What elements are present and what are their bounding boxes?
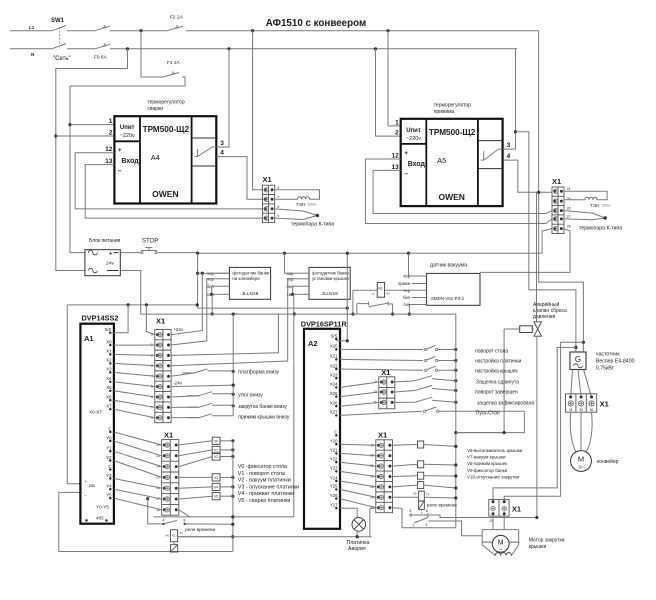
svg-text:V4: V4 xyxy=(214,485,218,489)
svg-text:A1: A1 xyxy=(84,334,94,343)
junction F1 to A4 pin1 xyxy=(68,123,71,126)
svg-text:3: 3 xyxy=(220,140,224,147)
wire N to PSU xyxy=(56,49,128,271)
svg-text:на конвейере: на конвейере xyxy=(232,276,260,281)
wires A1 Y pins to strip xyxy=(114,432,162,510)
relay coil реле времени K1 xyxy=(165,527,233,552)
svg-text:терморегулятор: терморегулятор xyxy=(434,102,471,108)
wire B2 sin down long to bus517 xyxy=(294,294,295,517)
valve V0 xyxy=(179,437,235,445)
svg-text:C: C xyxy=(334,430,337,435)
svg-text:X1: X1 xyxy=(381,368,390,377)
junction N to A4 pin2 xyxy=(54,134,57,137)
svg-text:+: + xyxy=(404,150,408,157)
junction rail1 xyxy=(232,370,235,373)
svg-text:4: 4 xyxy=(507,153,511,160)
heater ТЭН loop (A4) xyxy=(275,190,320,207)
valve V2 xyxy=(179,453,235,467)
svg-text:X1: X1 xyxy=(552,177,561,186)
wire bus517 left segment xyxy=(154,516,294,518)
svg-text:13: 13 xyxy=(105,158,113,165)
wire B2 kor up to +24v xyxy=(285,253,296,273)
wire bus536 horizontal xyxy=(178,536,372,538)
svg-text:X21: X21 xyxy=(330,354,338,359)
svg-text:+: + xyxy=(109,252,113,258)
svg-text:конвейер: конвейер xyxy=(597,458,619,465)
wire -24v bus horizontal xyxy=(141,313,456,315)
limit switch Защелка сдвинута xyxy=(395,376,519,386)
svg-text:ТРМ500-Щ2: ТРМ500-Щ2 xyxy=(429,128,476,137)
svg-text:X1: X1 xyxy=(378,431,387,440)
svg-text:~1: ~1 xyxy=(371,292,375,296)
junction G input A xyxy=(582,341,585,344)
valve V3 xyxy=(179,474,235,481)
valve V8 xyxy=(393,472,458,479)
limit switch прижим крышки внизу xyxy=(171,414,290,421)
svg-text:"Сеть": "Сеть" xyxy=(53,56,71,62)
svg-text:−: − xyxy=(118,168,122,175)
svg-text:35: 35 xyxy=(579,408,583,412)
svg-text:ТЭН: ТЭН xyxy=(590,203,599,208)
wires A2 Y pins to strip xyxy=(340,444,376,508)
svg-text:-24v: -24v xyxy=(173,381,183,386)
svg-text:-: - xyxy=(109,522,110,526)
svg-text:Y4: Y4 xyxy=(106,484,112,489)
svg-text:X25: X25 xyxy=(330,391,338,396)
valve V5 xyxy=(179,493,235,500)
wire A4 pin1 feed xyxy=(70,124,114,126)
wires X1 to conveyor motor xyxy=(570,412,592,452)
labels V0-V5 xyxy=(238,464,299,504)
junction B1 kor strip tap xyxy=(201,272,204,275)
wire A1 S/S to +24v bus xyxy=(110,305,128,333)
junction L1 drop x388 xyxy=(386,29,389,32)
sensor B2 фотодатчик банки установки крышки xyxy=(287,267,351,299)
wire A5 pin4 to X1 row1 xyxy=(503,160,552,192)
svg-text:Y22: Y22 xyxy=(330,457,338,462)
svg-text:защелка зафиксирована: защелка зафиксирована xyxy=(477,401,534,407)
breaker F0 6A xyxy=(94,25,110,60)
wire contact lower out to motor frame xyxy=(428,521,482,536)
svg-text:V2 - вакуум платинки: V2 - вакуум платинки xyxy=(238,478,291,484)
junction L1-F1 branch xyxy=(139,29,142,32)
junction N drop x375.5 xyxy=(374,47,377,50)
terminal block X1 (welding heater) xyxy=(263,175,280,223)
wire N to freq converter input B xyxy=(529,290,576,352)
terminal block X1 (cap motor) xyxy=(489,499,521,522)
svg-text:Блок питания: Блок питания xyxy=(89,238,121,244)
svg-text:терморегулятор: терморегулятор xyxy=(147,100,184,106)
svg-text:F1 2A: F1 2A xyxy=(167,60,181,66)
svg-text:Y26: Y26 xyxy=(330,493,338,498)
svg-text:настройка крышек: настройка крышек xyxy=(475,368,519,375)
junction stop out xyxy=(196,252,199,255)
wire L1 right drop to freq converter xyxy=(539,31,584,352)
svg-text:4: 4 xyxy=(220,150,224,157)
svg-text:термопара К-типа: термопара К-типа xyxy=(579,226,622,232)
contact реле времени (timer1 contact) xyxy=(146,497,233,525)
svg-text:0,75кВт: 0,75кВт xyxy=(596,366,615,372)
svg-text:485: 485 xyxy=(96,516,104,521)
wire Пуск-Стоп loop xyxy=(456,411,525,432)
svg-text:V8-прижим крышек: V8-прижим крышек xyxy=(467,461,507,466)
wire strip row7 to bus517 xyxy=(179,510,190,517)
wire L1 to X1 row1 (heater) xyxy=(253,31,263,190)
junction N drop left xyxy=(126,47,129,50)
svg-text:крышки: крышки xyxy=(529,544,547,550)
svg-text:X7: X7 xyxy=(106,404,112,409)
limit switch закрутка банки внизу xyxy=(171,403,287,410)
svg-text:34: 34 xyxy=(569,408,573,412)
wire A4 pin13 route under block xyxy=(85,165,262,219)
junction B1 sin xyxy=(211,312,214,315)
pushbutton STOP xyxy=(120,239,197,254)
wire cap-motor feed 2 xyxy=(504,342,583,501)
wires A1 X pins to strip xyxy=(114,345,155,418)
svg-text:Y1: Y1 xyxy=(106,446,112,451)
svg-text:X1: X1 xyxy=(512,505,521,514)
svg-text:X1: X1 xyxy=(156,317,165,326)
terminal block X1 (A1 inputs) xyxy=(151,317,171,423)
wire B1 bel tie to sin xyxy=(212,286,216,294)
valve V4 xyxy=(179,483,235,490)
svg-text:+24v: +24v xyxy=(173,327,184,332)
svg-text:Вход: Вход xyxy=(408,161,426,168)
valve V6 xyxy=(393,441,458,448)
limit switch поворот завершен xyxy=(395,386,518,396)
svg-text:S/S: S/S xyxy=(105,327,112,332)
junction B1 bel-sin xyxy=(210,293,213,296)
wire A4 pin12 route under block xyxy=(75,153,262,209)
wire valve return down xyxy=(456,329,504,433)
svg-text:27: 27 xyxy=(567,215,571,219)
wire switch common rail xyxy=(232,314,234,416)
thermocouple K-type (A4) xyxy=(275,209,335,228)
svg-text:X4: X4 xyxy=(106,376,112,381)
svg-text:V5 - сварка платинки: V5 - сварка платинки xyxy=(238,498,291,504)
svg-text:13: 13 xyxy=(391,164,399,171)
svg-text:V6-выталкиватель крышки: V6-выталкиватель крышки xyxy=(467,448,523,453)
svg-text:Т=: Т= xyxy=(426,493,430,497)
svg-text:26: 26 xyxy=(567,207,571,211)
converter G частотник Веспер Е4-8400 xyxy=(570,352,635,372)
svg-text:X0-X7: X0-X7 xyxy=(89,410,102,415)
svg-text:S/S: S/S xyxy=(331,333,338,338)
wire valve common rail xyxy=(232,441,234,552)
junction bus305 end xyxy=(196,303,199,306)
svg-text:24v: 24v xyxy=(106,261,114,267)
svg-text:Y0-Y5: Y0-Y5 xyxy=(96,505,109,510)
svg-text:датчик вакуума: датчик вакуума xyxy=(430,263,467,269)
svg-text:~220v: ~220v xyxy=(406,136,421,142)
wire +24v down to bus xyxy=(197,253,199,308)
svg-text:частотник: частотник xyxy=(596,352,620,358)
svg-text:Пуск-Стоп: Пуск-Стоп xyxy=(476,411,500,417)
svg-text:~: ~ xyxy=(499,547,502,553)
contact K3 xyxy=(357,302,393,315)
wire K3 coil return to -24v bus xyxy=(352,290,354,314)
svg-text:0: 0 xyxy=(151,333,153,337)
limit switch защелка зафиксирована xyxy=(395,397,535,406)
valve V9 xyxy=(393,482,458,490)
junction G input B xyxy=(574,346,577,349)
svg-text:установки крышки: установки крышки xyxy=(312,276,349,281)
svg-text:поворот завершен: поворот завершен xyxy=(475,390,518,396)
svg-text:3~: 3~ xyxy=(578,464,584,469)
wire +24v up to X1 row5 xyxy=(542,229,552,254)
wire A2 S/S to +24v line xyxy=(336,253,347,341)
svg-text:реле времени: реле времени xyxy=(185,527,215,532)
svg-text:JLLN18: JLLN18 xyxy=(242,291,259,297)
junction B2 sin at -24v bus xyxy=(293,312,296,315)
motor M2 закрутки крышки xyxy=(482,516,565,556)
pushbutton Пуск-Стоп xyxy=(340,407,524,417)
svg-text:C: C xyxy=(108,426,111,431)
wires A2 X24-X26 to strip xyxy=(340,382,379,406)
svg-text:К3: К3 xyxy=(378,286,382,290)
junction N drop x229 xyxy=(227,47,230,50)
svg-text:6: 6 xyxy=(278,186,280,190)
svg-text:Y20: Y20 xyxy=(330,439,338,444)
svg-text:Мотор закрутки: Мотор закрутки xyxy=(529,538,565,544)
wire cap-motor feed 1 xyxy=(493,347,576,501)
wire A4 pin3 out xyxy=(216,146,229,148)
wire L1 to A5 pin1 xyxy=(388,31,401,126)
svg-text:2: 2 xyxy=(395,130,399,137)
svg-text:36: 36 xyxy=(590,408,594,412)
svg-text:(Ч): (Ч) xyxy=(165,534,169,538)
svg-text:Y24: Y24 xyxy=(330,475,338,480)
motor M1 конвейер xyxy=(571,451,619,472)
PLC A1 DVP14SS2 xyxy=(79,314,118,527)
svg-text:прижим крышки внизу: прижим крышки внизу xyxy=(238,414,290,420)
svg-text:F0 6A: F0 6A xyxy=(94,55,108,61)
solenoid Аварийный клапан сброса давления xyxy=(520,301,567,336)
contact timer2 changeover xyxy=(409,509,430,528)
svg-text:SMDN-V01-P3-2: SMDN-V01-P3-2 xyxy=(431,296,464,301)
sensor B3 датчик вакуума xyxy=(398,263,480,308)
svg-text:прижима: прижима xyxy=(434,109,455,115)
relay coil реле времени K2 (timer2) xyxy=(393,491,458,513)
svg-text:Y25: Y25 xyxy=(330,484,338,489)
wire X1 row3 sensor drop xyxy=(171,314,278,355)
wire bus to X1 row1 xyxy=(146,305,154,335)
svg-text:V7-вакуум крышки: V7-вакуум крышки xyxy=(467,455,506,460)
wire strip row6 -24v to rail xyxy=(171,385,233,387)
svg-text:Y27: Y27 xyxy=(330,503,338,508)
svg-text:бел: бел xyxy=(403,295,411,300)
wire N to A4 pin3 xyxy=(216,49,229,147)
wire +24v bus right segment xyxy=(198,307,348,309)
selector switch настройка крышек xyxy=(340,366,519,374)
svg-text:X3: X3 xyxy=(106,367,112,372)
op-amp A5 ТРМ500-Щ2 block xyxy=(401,119,503,206)
wire N line xyxy=(10,48,52,50)
relay contact of A5 xyxy=(481,149,503,160)
wire B1 cher down to X1 row2 xyxy=(171,279,215,345)
wire X1 row5 right loop to vacuum sensor xyxy=(480,229,570,273)
wire A4 pin4 to X1 row2 xyxy=(216,157,262,200)
limit switch утюг внизу xyxy=(171,392,263,399)
selector switch поворот стола xyxy=(340,346,508,355)
wire -24v feed to A1 and bottom bus xyxy=(59,492,233,551)
svg-text:настройка платинки: настройка платинки xyxy=(475,358,521,365)
breaker F1 2A xyxy=(163,60,181,77)
svg-text:OWEN: OWEN xyxy=(152,189,178,199)
wire +24v bus left segment xyxy=(67,304,197,306)
junction kor B1 tap xyxy=(196,272,199,275)
svg-text:X20: X20 xyxy=(330,344,338,349)
svg-text:X1: X1 xyxy=(600,400,609,409)
svg-text:~220v: ~220v xyxy=(120,133,135,139)
svg-text:8: 8 xyxy=(426,509,428,513)
svg-text:X6: X6 xyxy=(106,395,112,400)
svg-text:V9-фиксатор банки: V9-фиксатор банки xyxy=(467,468,508,473)
svg-text:5: 5 xyxy=(410,509,412,513)
relay contact of A4 xyxy=(194,147,216,157)
svg-text:24: 24 xyxy=(567,187,571,191)
svg-text:V1 - поворот стола: V1 - поворот стола xyxy=(238,471,285,477)
svg-text:Т=: Т= xyxy=(179,531,183,535)
svg-text:1: 1 xyxy=(109,118,113,125)
svg-text:N: N xyxy=(31,52,34,57)
wire F1 branch xyxy=(141,31,163,77)
svg-text:8: 8 xyxy=(278,205,280,209)
svg-text:оранж: оранж xyxy=(398,281,410,286)
thermocouple K-type (A5) xyxy=(564,211,622,232)
wire N to A5 pin2 xyxy=(376,49,401,136)
svg-text:X27: X27 xyxy=(330,410,338,415)
wire -24v from PSU xyxy=(120,271,140,315)
svg-text:DVP14SS2: DVP14SS2 xyxy=(82,314,119,323)
wire B1 sin down to -24v bus xyxy=(212,293,216,295)
svg-text:8: 8 xyxy=(184,519,186,523)
PLC A2 DVP16SP11R xyxy=(301,319,348,529)
svg-text:9: 9 xyxy=(278,214,280,218)
svg-text:X2: X2 xyxy=(106,358,112,363)
svg-text:Uпит: Uпит xyxy=(120,125,135,131)
svg-text:3: 3 xyxy=(507,142,511,149)
svg-text:X24: X24 xyxy=(330,382,338,387)
svg-text:F2 2A: F2 2A xyxy=(170,15,184,21)
svg-text:24v: 24v xyxy=(89,483,97,488)
breaker F2 2A xyxy=(167,15,184,31)
svg-text:V10-отпускание закрутки: V10-отпускание закрутки xyxy=(467,474,519,479)
svg-text:1: 1 xyxy=(395,119,399,126)
wire +24v feed to A1 xyxy=(67,305,80,484)
svg-text:Y0: Y0 xyxy=(106,435,112,440)
junction bus305 x128 xyxy=(127,303,130,306)
svg-text:V4 - прижват платинки: V4 - прижват платинки xyxy=(238,491,294,497)
svg-text:C: C xyxy=(108,464,111,469)
junction bus305 x146 xyxy=(145,303,148,306)
svg-text:фотодатчик банки: фотодатчик банки xyxy=(312,270,349,275)
wire A5 pin3 to N drop xyxy=(503,148,515,150)
wire strip row1 +24v riser xyxy=(171,273,202,334)
wire F1 out to PSU/A4 xyxy=(70,77,185,253)
svg-text:JLLN18: JLLN18 xyxy=(321,291,338,297)
limit switch платформа внизу xyxy=(171,369,279,376)
wire +24v bus line xyxy=(198,252,542,254)
wire A5 pin12 route under block xyxy=(365,159,552,224)
op-amp A4 ТРМ500-Щ2 block xyxy=(114,116,216,203)
svg-text:G: G xyxy=(575,355,581,364)
wire N jog right and down xyxy=(516,132,529,290)
svg-text:V0: V0 xyxy=(214,439,218,443)
svg-text:V0 -фиксатор стола: V0 -фиксатор стола xyxy=(238,464,287,470)
terminal block X1 (clamp heater) xyxy=(552,177,571,234)
svg-text:закрутка банки внизу: закрутка банки внизу xyxy=(238,404,287,410)
svg-text:сварки: сварки xyxy=(147,106,163,112)
svg-text:X0: X0 xyxy=(106,339,112,344)
svg-text:A2: A2 xyxy=(308,339,318,348)
svg-text:SW1: SW1 xyxy=(51,18,65,24)
svg-text:реле времени: реле времени xyxy=(427,503,457,508)
svg-text:поворот стола: поворот стола xyxy=(475,349,508,355)
svg-text:X22: X22 xyxy=(330,363,338,368)
junction B2 bel-sin xyxy=(291,293,294,296)
junction kor vacuum sensor xyxy=(407,252,410,255)
junction bus314 x232 xyxy=(232,313,235,316)
svg-text:Y23: Y23 xyxy=(330,466,338,471)
svg-text:Y5: Y5 xyxy=(106,493,112,498)
svg-text:X23: X23 xyxy=(330,373,338,378)
svg-text:1: 1 xyxy=(413,524,415,528)
wire B2 cher down to X1 row4 xyxy=(171,279,295,366)
svg-text:Y21: Y21 xyxy=(330,448,338,453)
svg-text:STOP: STOP xyxy=(142,239,158,245)
svg-text:V1: V1 xyxy=(214,448,218,452)
selector switch настройка платинки xyxy=(340,357,521,365)
svg-text:Веспер Е4-8400: Веспер Е4-8400 xyxy=(596,359,635,365)
svg-text:+: + xyxy=(118,147,122,154)
valve V1 xyxy=(179,446,235,456)
wire valve feed from L xyxy=(536,192,538,321)
svg-text:V3: V3 xyxy=(214,476,218,480)
svg-text:X1: X1 xyxy=(263,175,272,184)
svg-text:3: 3 xyxy=(426,523,428,527)
wire valve coil left down xyxy=(504,328,520,330)
junction A5 pin3 to N drop xyxy=(514,130,517,133)
lamp Платинка Авария xyxy=(340,508,376,552)
svg-text:ТРМ500-Щ2: ТРМ500-Щ2 xyxy=(143,125,190,134)
svg-text:500w: 500w xyxy=(308,203,317,207)
wire B3 sin to -24v bus xyxy=(409,305,411,315)
svg-text:V2: V2 xyxy=(214,455,218,459)
relay K3 coil xyxy=(353,282,412,297)
svg-text:M: M xyxy=(498,540,504,547)
sensor B1 фотодатчик банки на конвейере xyxy=(207,267,271,299)
svg-text:X1: X1 xyxy=(164,431,173,440)
svg-text:К1: К1 xyxy=(172,534,176,538)
wires G outputs to X1 xyxy=(571,370,592,398)
svg-text:2: 2 xyxy=(109,130,113,137)
wire A4 pin2 feed xyxy=(56,135,115,137)
svg-text:Uпит: Uпит xyxy=(406,128,421,134)
svg-text:Вход: Вход xyxy=(121,158,139,165)
wire L1 line xyxy=(10,30,52,32)
svg-text:V3 - опускание платинки: V3 - опускание платинки xyxy=(238,484,299,490)
svg-text:A4: A4 xyxy=(151,153,160,162)
svg-text:Защелка сдвинута: Защелка сдвинута xyxy=(476,380,519,386)
svg-text:L1: L1 xyxy=(29,25,35,30)
svg-text:500w: 500w xyxy=(602,204,611,208)
svg-text:Y2: Y2 xyxy=(106,455,112,460)
svg-text:OWEN: OWEN xyxy=(438,192,464,202)
wire N right drop xyxy=(515,49,517,149)
terminal block X1 (conveyor motor) xyxy=(566,394,609,412)
svg-text:28: 28 xyxy=(567,225,571,229)
